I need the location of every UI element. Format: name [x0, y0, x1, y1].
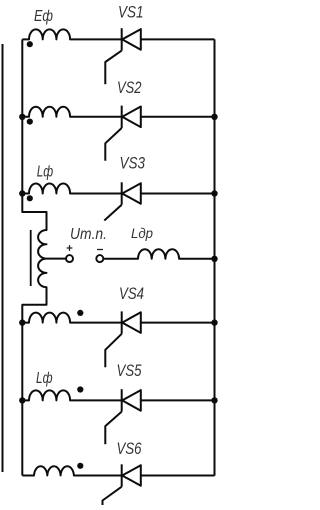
- svg-text:Lф: Lф: [36, 370, 53, 387]
- svg-text:Um.n.: Um.n.: [70, 226, 107, 243]
- svg-text:VS4: VS4: [119, 284, 144, 303]
- svg-text:VS1: VS1: [118, 3, 144, 22]
- svg-text:Lдp: Lдp: [131, 225, 153, 241]
- svg-text:Eф: Eф: [34, 8, 53, 25]
- svg-text:VS2: VS2: [117, 78, 142, 97]
- svg-text:VS5: VS5: [117, 361, 142, 380]
- svg-text:VS6: VS6: [117, 439, 142, 458]
- svg-text:VS3: VS3: [120, 154, 146, 173]
- svg-text:Lф: Lф: [37, 164, 54, 181]
